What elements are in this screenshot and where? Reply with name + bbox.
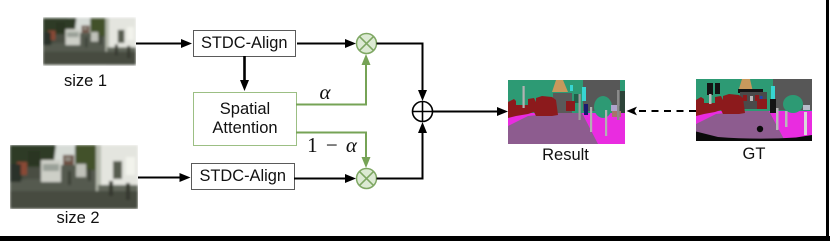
label GT xyxy=(696,145,812,164)
wire STDC-Align bottom to multiply node bottom xyxy=(294,174,356,183)
box Spatial Attention xyxy=(193,92,297,146)
input image size 2 xyxy=(10,145,138,209)
wire multiply top to add node xyxy=(377,44,428,102)
dashed wire GT to Result xyxy=(627,107,697,116)
multiply node top xyxy=(357,34,377,54)
wire photo2 to STDC-Align bottom xyxy=(138,173,191,182)
wire add node to Result xyxy=(433,107,509,116)
segmentation image Result xyxy=(508,80,625,144)
multiply node bottom xyxy=(357,169,377,189)
label size 1 xyxy=(39,72,132,91)
label 1 minus alpha xyxy=(301,133,363,158)
label size 2 xyxy=(14,209,142,228)
label Result xyxy=(507,146,624,165)
box STDC-Align top xyxy=(193,30,296,58)
wire STDC-Align top down to Spatial Attention xyxy=(240,56,249,91)
wire alpha: Spatial Attention to multiply node top xyxy=(296,54,371,105)
wire multiply bottom to add node xyxy=(377,122,428,179)
input image size 1 xyxy=(43,17,136,66)
add node xyxy=(413,102,433,122)
box STDC-Align bottom xyxy=(191,163,295,191)
wire 1-alpha: Spatial Attention to multiply node bottom xyxy=(296,133,371,169)
segmentation image GT xyxy=(696,79,812,141)
wire photo1 to STDC-Align top xyxy=(136,39,192,48)
right border line xyxy=(826,0,828,241)
wire STDC-Align top to multiply node top xyxy=(297,39,356,48)
label alpha xyxy=(313,80,337,105)
bottom black bar xyxy=(0,236,830,241)
